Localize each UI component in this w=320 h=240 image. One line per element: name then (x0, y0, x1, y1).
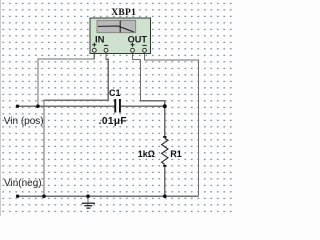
svg-text:R1: R1 (170, 149, 182, 159)
svg-text:XBP1: XBP1 (111, 8, 136, 18)
svg-text:C1: C1 (109, 88, 121, 98)
svg-text:OUT: OUT (128, 34, 148, 44)
svg-text:1kΩ: 1kΩ (138, 149, 155, 159)
svg-text:Vin(neg): Vin(neg) (4, 178, 42, 189)
svg-text:Vin (pos): Vin (pos) (4, 116, 44, 127)
svg-text:.01μF: .01μF (99, 116, 127, 127)
svg-text:IN: IN (95, 34, 105, 45)
